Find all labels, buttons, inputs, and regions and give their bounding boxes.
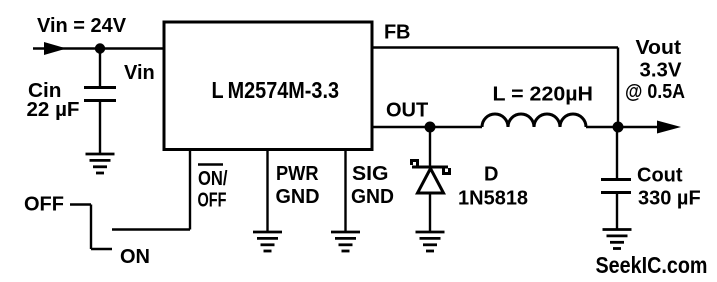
svg-text:SIG: SIG bbox=[352, 163, 389, 185]
wire pin SIG GND bbox=[344, 150, 346, 232]
ground Cout bbox=[603, 230, 632, 249]
node output junction bbox=[613, 122, 624, 133]
svg-text:D: D bbox=[484, 164, 498, 186]
svg-text:@ 0.5A: @ 0.5A bbox=[625, 81, 685, 103]
svg-text:3.3V: 3.3V bbox=[640, 60, 683, 82]
svg-text:Vin = 24V: Vin = 24V bbox=[37, 15, 127, 37]
capacitor C1 Cin bbox=[84, 88, 116, 101]
wire pin ON/OFF vertical bbox=[189, 150, 191, 230]
svg-text:L = 220µH: L = 220µH bbox=[493, 84, 594, 106]
ground diode bbox=[416, 232, 445, 251]
svg-text:FB: FB bbox=[384, 22, 411, 44]
switch S1 OFF stub bbox=[70, 203, 91, 205]
svg-text:330 µF: 330 µF bbox=[638, 188, 701, 210]
svg-text:L M2574M-3.3: L M2574M-3.3 bbox=[212, 77, 340, 103]
wire OUT bbox=[372, 126, 482, 128]
arrow output bbox=[657, 121, 681, 134]
svg-text:OFF: OFF bbox=[198, 190, 227, 212]
svg-text:PWR: PWR bbox=[276, 163, 319, 185]
svg-text:Vout: Vout bbox=[636, 37, 682, 59]
ground Cin bbox=[86, 154, 115, 173]
switch S1 ON stub bbox=[91, 248, 112, 250]
svg-text:1N5818: 1N5818 bbox=[458, 188, 528, 210]
diode D 1N5818 schottky bbox=[412, 161, 450, 194]
label ON/ with overline bbox=[198, 165, 228, 191]
svg-text:OUT: OUT bbox=[386, 100, 428, 122]
svg-text:22 µF: 22 µF bbox=[27, 99, 80, 121]
switch S1 vertical bbox=[90, 205, 92, 250]
svg-text:ON: ON bbox=[120, 246, 150, 268]
wire diode bottom bbox=[429, 193, 431, 232]
wire pin ON/OFF horizontal bbox=[112, 228, 190, 230]
wire FB horizontal bbox=[372, 46, 618, 48]
svg-text:ON/: ON/ bbox=[198, 168, 228, 190]
wire output bbox=[618, 126, 660, 128]
svg-text:GND: GND bbox=[351, 186, 394, 208]
svg-text:GND: GND bbox=[276, 186, 320, 208]
capacitor C2 Cout bbox=[601, 180, 631, 193]
wire inductor to output node bbox=[586, 126, 618, 128]
wire Cout top bbox=[616, 127, 618, 179]
IC U1 LM2574M-3.3 bbox=[164, 22, 372, 150]
svg-text:Cout: Cout bbox=[637, 165, 683, 187]
wire diode top bbox=[429, 127, 431, 167]
wire Cin bottom bbox=[99, 102, 101, 154]
svg-text:OFF: OFF bbox=[24, 194, 64, 216]
node input junction bbox=[95, 43, 105, 53]
arrow input direction bbox=[44, 42, 67, 55]
wire FB vertical bbox=[617, 48, 619, 128]
ground SIG bbox=[331, 232, 360, 251]
ground PWR bbox=[253, 232, 282, 251]
wire Cout bottom bbox=[616, 194, 618, 230]
svg-text:Vin: Vin bbox=[124, 62, 155, 84]
wire Cin top bbox=[99, 49, 101, 87]
wire pin PWR GND bbox=[266, 150, 268, 232]
inductor L1 bbox=[482, 114, 586, 127]
svg-text:SeekIC.com: SeekIC.com bbox=[596, 252, 708, 278]
wire input Vin bbox=[33, 47, 164, 49]
node OUT junction bbox=[425, 122, 436, 133]
